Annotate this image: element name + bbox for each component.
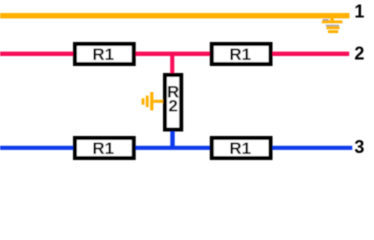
resistor R1 (net2 right) (212, 44, 271, 64)
wire net 1 (yellow rail) (0, 13, 350, 18)
node 2 label (354, 44, 364, 64)
resistor R1 (net3 right) (212, 138, 271, 158)
svg-text:1: 1 (354, 2, 364, 22)
svg-text:2: 2 (168, 96, 177, 115)
svg-text:R1: R1 (229, 45, 251, 64)
ground at R2 pin (left, rotated) (142, 92, 163, 110)
svg-text:3: 3 (354, 137, 364, 157)
wire net 3 (blue rail) (0, 146, 352, 150)
node 1 label (354, 2, 364, 22)
svg-text:R1: R1 (92, 139, 114, 158)
resistor R1 (net2 left) (75, 44, 134, 64)
wire net 2 (red rail) (0, 52, 349, 56)
svg-text:R1: R1 (229, 139, 251, 158)
svg-text:R1: R1 (92, 45, 114, 64)
wire stub R2 pin2 to net3 (170, 130, 174, 148)
node 3 label (354, 137, 364, 157)
svg-text:2: 2 (354, 44, 364, 64)
wire stub net2 to R2 pin1 (170, 54, 174, 74)
resistor R1 (net3 left) (75, 138, 134, 158)
resistor R2 (vertical) (165, 75, 181, 130)
ground GND1 on net 1 (322, 16, 343, 33)
